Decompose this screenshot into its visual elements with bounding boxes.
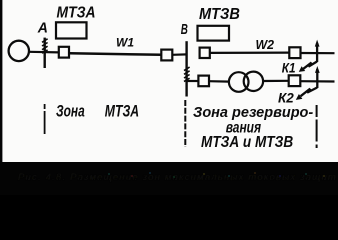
svg-text:А: А xyxy=(37,20,48,36)
transformer T1 xyxy=(229,72,263,92)
relay box MTZ-B xyxy=(198,26,230,41)
caption blurred text in bottom band xyxy=(18,172,338,183)
svg-text:Рис. 4.8. Размещение зон макси: Рис. 4.8. Размещение зон максимальных то… xyxy=(18,172,338,183)
svg-text:вания: вания xyxy=(226,118,262,136)
breaker Q3 (square on W2 at bus B) xyxy=(200,48,210,58)
caption noise specks xyxy=(108,172,325,178)
breaker Q1 (square on W1 at bus A) xyxy=(59,47,69,58)
wire bus B to breaker Q5 (lower feeder) xyxy=(187,80,199,82)
generator G xyxy=(9,41,29,61)
wire breaker Q2 to bus B xyxy=(172,53,187,56)
fault arrow K1 xyxy=(299,40,320,72)
fault arrow K2 xyxy=(296,66,320,100)
zone boundary marker left (under bus A) xyxy=(44,104,46,134)
svg-text:К2: К2 xyxy=(278,90,294,105)
svg-text:К1: К1 xyxy=(282,61,296,76)
svg-text:В: В xyxy=(181,21,188,37)
fault label К2 xyxy=(278,90,294,105)
node label B xyxy=(181,21,188,37)
relay box MTZ-A xyxy=(56,22,87,38)
label МТЗВ xyxy=(199,5,240,23)
label W1 xyxy=(116,36,134,50)
wire W1 xyxy=(69,53,161,55)
bus A xyxy=(42,38,48,68)
wire transformer to breaker Q6 xyxy=(263,80,289,82)
wire W2 end segment xyxy=(301,52,335,54)
breaker Q4 (square at end of W2) xyxy=(289,47,300,58)
svg-text:Зона: Зона xyxy=(56,103,85,122)
svg-text:МТЗА: МТЗА xyxy=(105,103,139,121)
zone label Зона МТЗА xyxy=(56,103,139,122)
svg-text:W1: W1 xyxy=(116,36,134,50)
node label A xyxy=(37,20,48,36)
zone boundary marker right (under fault K2) xyxy=(316,105,318,148)
wire generator to breaker Q1 xyxy=(29,51,59,54)
svg-text:W2: W2 xyxy=(256,38,274,52)
zone label Зона резервирования МТЗА и МТЗВ xyxy=(193,105,313,152)
wire W2 xyxy=(210,51,290,54)
scan border left edge xyxy=(0,0,2,195)
wire lower feeder end segment xyxy=(300,80,334,83)
label W2 xyxy=(256,38,274,52)
bus B xyxy=(184,41,190,96)
breaker Q2 (square at end of W1) xyxy=(161,50,172,61)
zone boundary marker middle (under bus B) xyxy=(184,100,186,147)
svg-text:МТЗВ: МТЗВ xyxy=(199,5,240,23)
breaker Q6 (square after transformer) xyxy=(289,75,301,86)
wire breaker Q5 to transformer xyxy=(209,80,230,83)
scan border bottom band xyxy=(0,162,338,195)
breaker Q5 (square on transformer feeder) xyxy=(198,76,209,87)
svg-text:МТЗА и МТЗВ: МТЗА и МТЗВ xyxy=(201,134,293,151)
svg-text:МТЗА: МТЗА xyxy=(57,4,96,22)
label МТЗА xyxy=(57,4,96,22)
fault label К1 xyxy=(282,61,296,76)
